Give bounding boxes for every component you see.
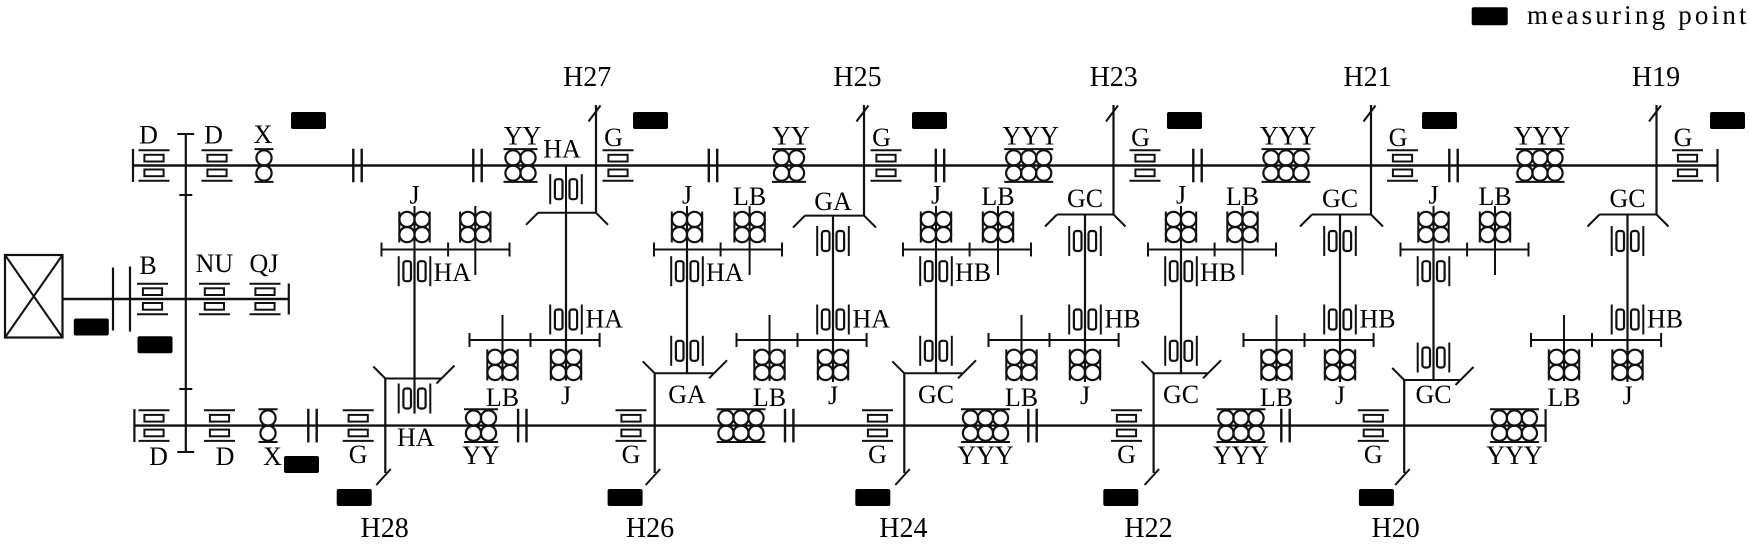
svg-text:YY: YY <box>772 122 810 151</box>
svg-text:J: J <box>931 181 941 210</box>
svg-text:YYY: YYY <box>1486 441 1543 470</box>
svg-text:H25: H25 <box>833 62 881 93</box>
svg-text:G: G <box>604 123 623 152</box>
svg-text:G: G <box>622 440 641 469</box>
svg-text:HB: HB <box>1647 305 1683 334</box>
svg-text:B: B <box>139 251 156 280</box>
svg-text:J: J <box>828 381 838 410</box>
svg-text:YYY: YYY <box>1514 122 1571 151</box>
svg-text:GA: GA <box>814 187 852 216</box>
svg-text:HA: HA <box>586 305 624 334</box>
svg-text:HA: HA <box>706 258 744 287</box>
svg-text:H26: H26 <box>626 513 674 540</box>
svg-text:HB: HB <box>1360 305 1396 334</box>
svg-text:J: J <box>1622 381 1632 410</box>
svg-text:X: X <box>263 442 282 471</box>
svg-text:G: G <box>349 440 368 469</box>
svg-text:HB: HB <box>1200 258 1236 287</box>
svg-text:HA: HA <box>543 135 581 164</box>
svg-text:G: G <box>872 123 891 152</box>
svg-text:YY: YY <box>504 122 542 151</box>
svg-text:LB: LB <box>753 383 786 412</box>
svg-text:GC: GC <box>1067 184 1103 213</box>
svg-text:LB: LB <box>1005 383 1038 412</box>
svg-text:HA: HA <box>397 423 435 452</box>
svg-text:YYY: YYY <box>1260 122 1317 151</box>
svg-text:H19: H19 <box>1632 62 1680 93</box>
svg-text:J: J <box>1335 381 1345 410</box>
svg-text:YY: YY <box>462 441 500 470</box>
svg-text:J: J <box>682 181 692 210</box>
svg-text:HA: HA <box>853 305 891 334</box>
svg-text:G: G <box>1674 123 1693 152</box>
svg-text:G: G <box>1117 440 1136 469</box>
svg-text:H28: H28 <box>360 513 408 540</box>
svg-text:QJ: QJ <box>250 249 279 278</box>
svg-text:YYY: YYY <box>1213 441 1270 470</box>
svg-text:GA: GA <box>668 380 706 409</box>
svg-text:G: G <box>1364 440 1383 469</box>
svg-text:J: J <box>1176 181 1186 210</box>
svg-text:HA: HA <box>434 258 472 287</box>
svg-text:measuring point: measuring point <box>1527 0 1750 30</box>
svg-text:H24: H24 <box>879 513 927 540</box>
svg-text:G: G <box>1131 123 1150 152</box>
svg-text:GC: GC <box>1322 184 1358 213</box>
svg-text:D: D <box>139 121 158 150</box>
svg-text:GC: GC <box>918 380 954 409</box>
svg-text:H23: H23 <box>1090 62 1138 93</box>
svg-text:J: J <box>561 381 571 410</box>
svg-text:D: D <box>204 121 223 150</box>
svg-text:J: J <box>1080 381 1090 410</box>
svg-text:HB: HB <box>955 258 991 287</box>
svg-text:H27: H27 <box>563 62 611 93</box>
svg-text:H20: H20 <box>1371 513 1419 540</box>
svg-text:H22: H22 <box>1124 513 1172 540</box>
svg-text:GC: GC <box>1609 184 1645 213</box>
svg-text:YYY: YYY <box>1003 122 1060 151</box>
svg-text:LB: LB <box>486 383 519 412</box>
svg-text:GC: GC <box>1415 380 1451 409</box>
svg-text:NU: NU <box>196 249 234 278</box>
svg-text:G: G <box>1389 123 1408 152</box>
svg-text:H21: H21 <box>1343 62 1391 93</box>
svg-text:LB: LB <box>1547 383 1580 412</box>
svg-text:D: D <box>149 442 168 471</box>
svg-text:D: D <box>216 442 235 471</box>
svg-text:J: J <box>1428 181 1438 210</box>
svg-text:GC: GC <box>1163 380 1199 409</box>
svg-text:X: X <box>254 120 273 149</box>
svg-text:G: G <box>868 440 887 469</box>
svg-text:J: J <box>409 181 419 210</box>
svg-text:LB: LB <box>1260 383 1293 412</box>
svg-text:YYY: YYY <box>957 441 1014 470</box>
svg-text:HB: HB <box>1105 305 1141 334</box>
